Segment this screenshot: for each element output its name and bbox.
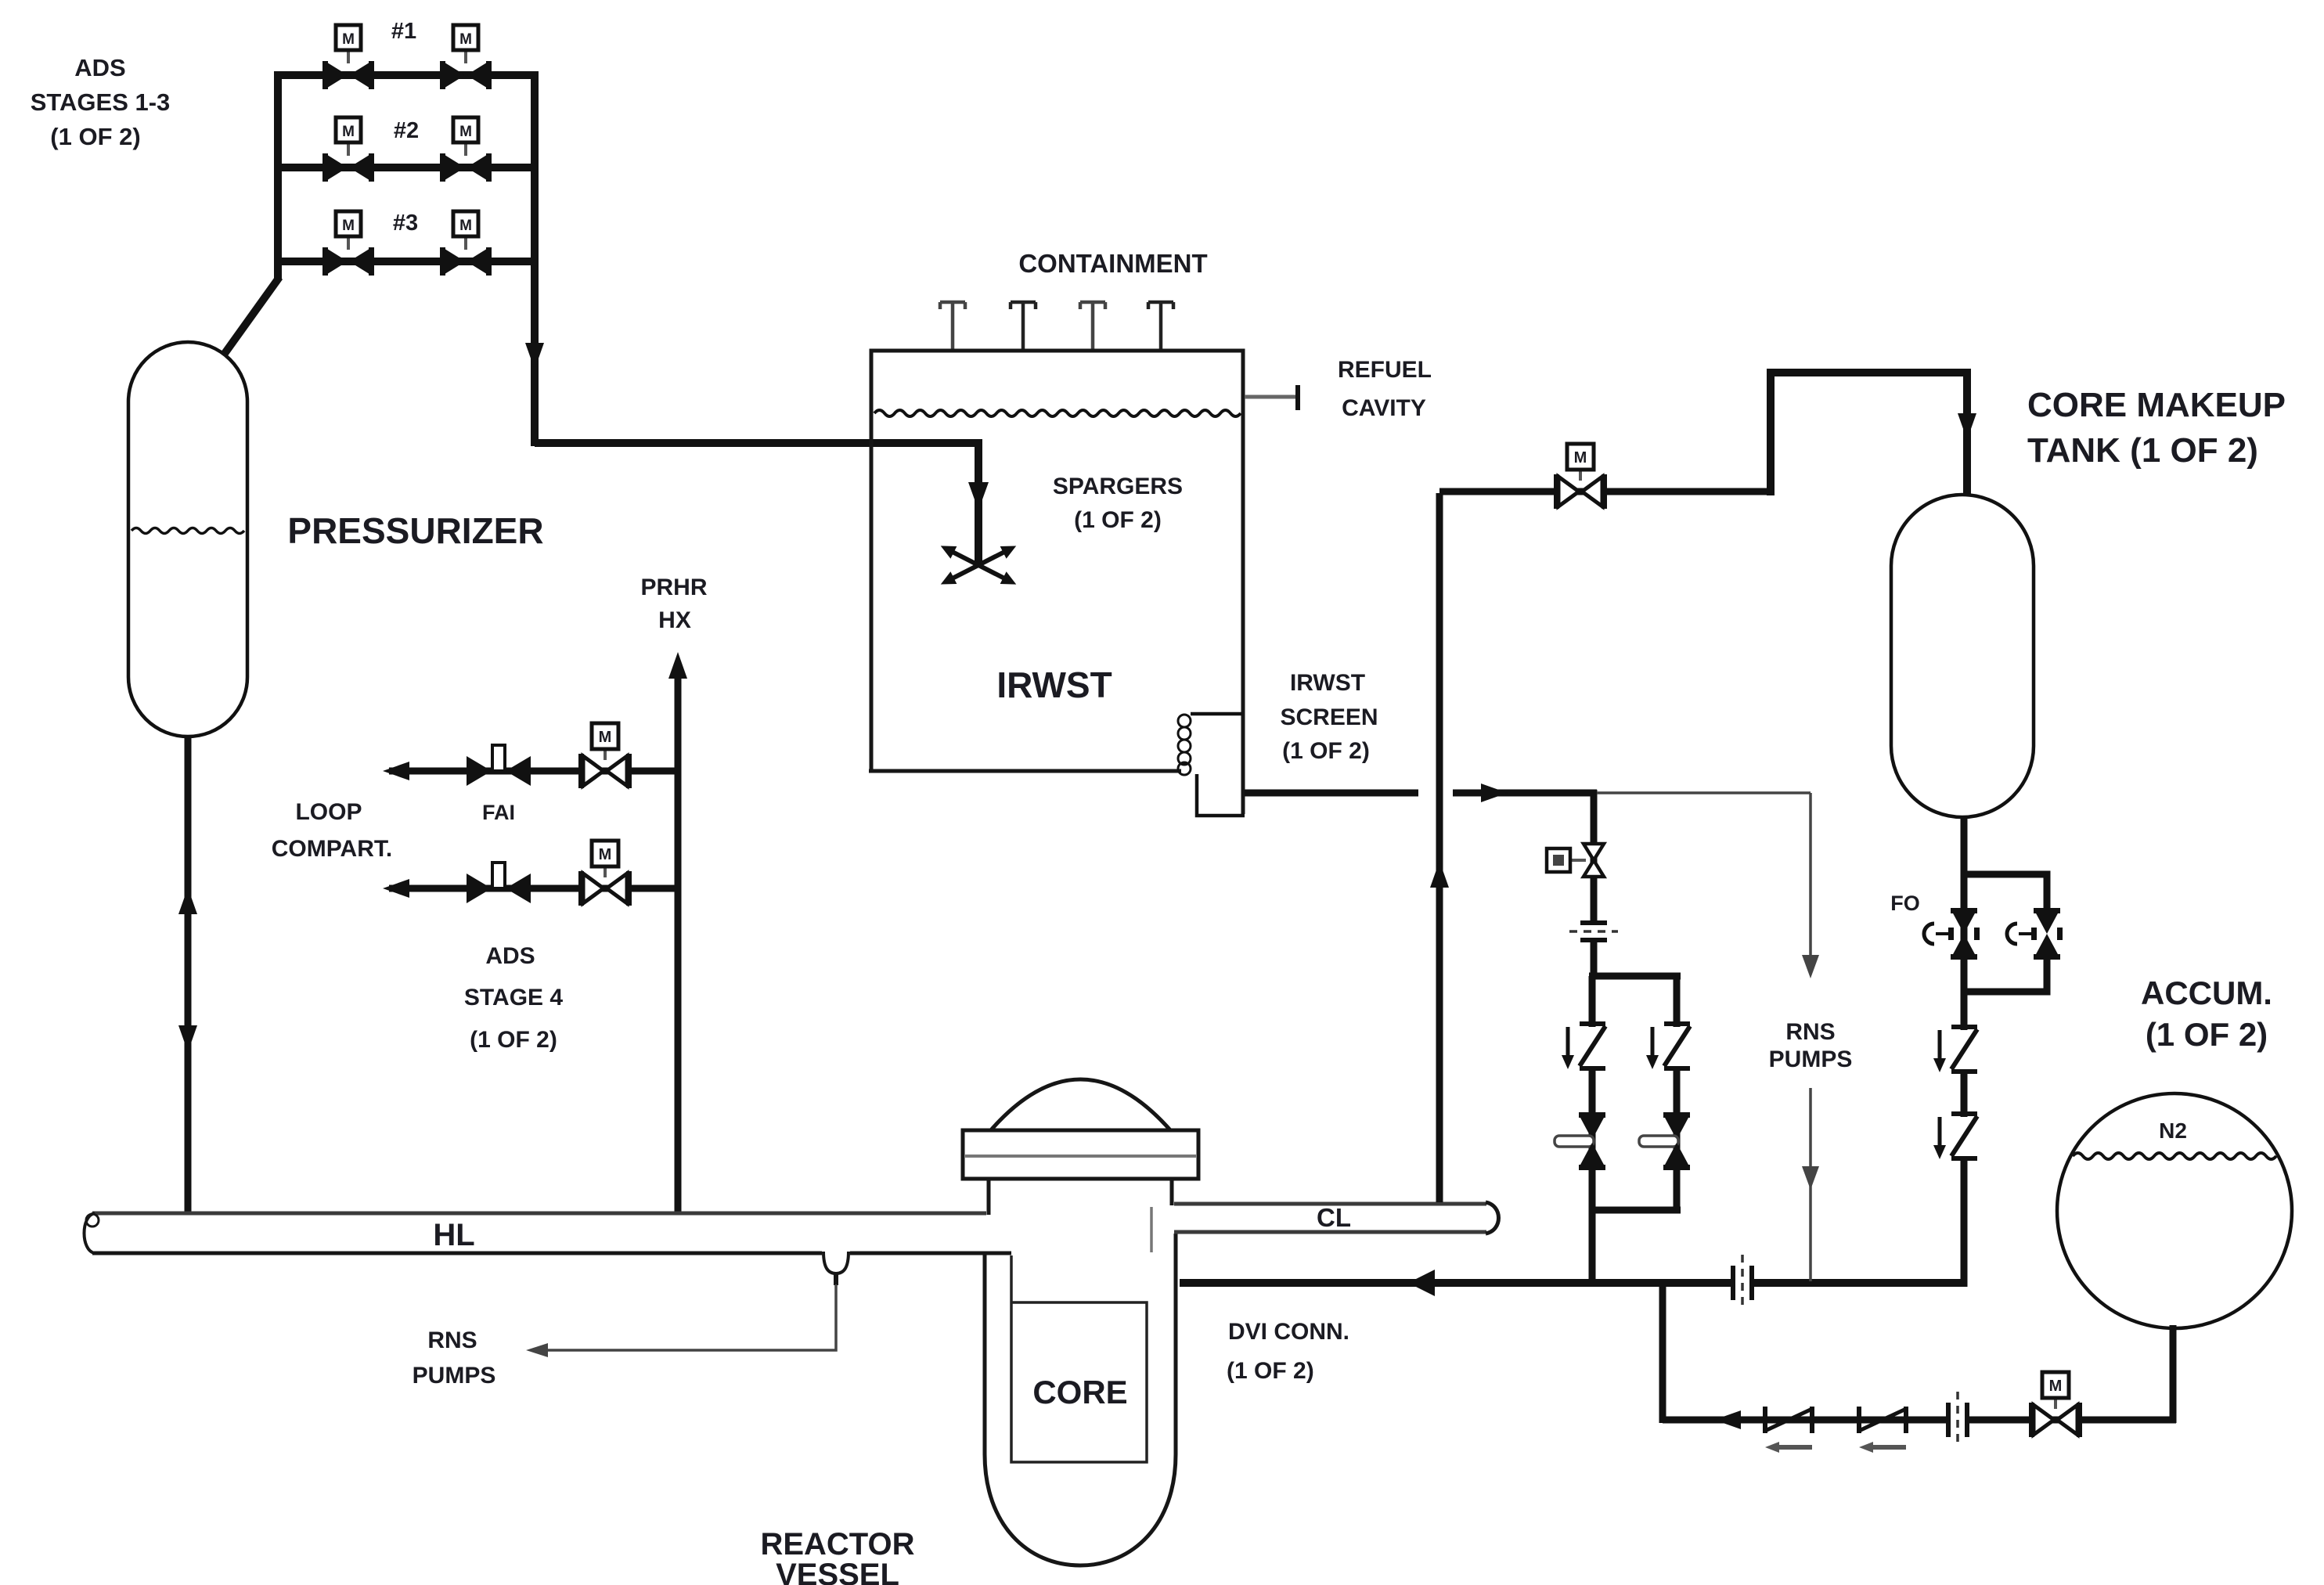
wire arrow down into CMT (1958, 413, 1976, 440)
wire arrow left ADS4 line (383, 879, 409, 898)
svg-text:PRHR: PRHR (640, 575, 707, 600)
wire parallel branch split (1589, 973, 1681, 980)
wire parallel branch rejoin (1589, 1207, 1681, 1214)
wire ADS header right vertical (531, 71, 539, 446)
svg-text:(1 OF 2): (1 OF 2) (50, 123, 140, 150)
squib valve CMT lower (1933, 1114, 1977, 1159)
wire arrow up to PRHR HX (668, 652, 687, 679)
flanged break accumulator line (1946, 1392, 1969, 1448)
wire ADS header left vertical (274, 72, 282, 280)
wire arrow up on balance line (1430, 861, 1449, 888)
svg-text:STAGE 4: STAGE 4 (464, 985, 563, 1010)
wire ADS stage 3 line (274, 258, 539, 265)
check valve right IRWST leg (1639, 1112, 1690, 1170)
svg-text:(1 OF 2): (1 OF 2) (470, 1027, 557, 1053)
svg-text:STAGES 1-3: STAGES 1-3 (31, 88, 171, 116)
wire arrow left on accumulator line (1714, 1410, 1741, 1429)
wire DVI injection line (1180, 1279, 1966, 1287)
label SPARGERS (1 OF 2) (1053, 474, 1183, 533)
svg-text:#2: #2 (394, 118, 419, 143)
squib valve left IRWST leg (1562, 1024, 1605, 1069)
label PRHR HX (640, 575, 707, 633)
flanged break on injection leg (1569, 920, 1618, 942)
hot leg pipe HL (85, 1213, 1012, 1253)
wire balance line upper run to CMT (1771, 373, 1967, 496)
svg-text:PRESSURIZER: PRESSURIZER (287, 510, 543, 551)
wire arrow up on surge line (178, 888, 197, 914)
wire FAI vent line (389, 768, 681, 775)
wire arrow left on DVI line (1408, 1270, 1435, 1296)
wire balance line horizontal run (1439, 488, 1775, 495)
wire arrow down sparger line (968, 482, 989, 510)
svg-text:IRWST: IRWST (996, 665, 1112, 705)
wire injection tail to DVI (1589, 1210, 1596, 1287)
containment vent 4 (1148, 302, 1173, 352)
svg-text:ACCUM.: ACCUM. (2141, 974, 2272, 1011)
IRWST tank bottom (869, 769, 1181, 773)
reactor vessel lower shell (985, 1234, 1176, 1565)
containment vent 2 (1011, 302, 1036, 352)
wire ADS stage 1 line (274, 71, 539, 79)
IRWST tank walls (871, 351, 1243, 814)
wire RNS pumps injection spur (1597, 793, 1811, 1281)
svg-text:ADS: ADS (74, 54, 125, 81)
valve FAI MOV (578, 723, 632, 788)
svg-text:TANK (1 OF 2): TANK (1 OF 2) (2027, 431, 2258, 470)
svg-text:ADS: ADS (485, 943, 535, 969)
svg-text:PUMPS: PUMPS (1769, 1046, 1853, 1072)
accumulator water level wavy line (2073, 1153, 2276, 1159)
reactor vessel dome (989, 1079, 1172, 1132)
IRWST screen box (1191, 714, 1245, 816)
wire arrow right on injection header (1481, 783, 1508, 802)
svg-text:COMPART.: COMPART. (272, 836, 392, 862)
pressurizer water level wavy line (132, 528, 244, 534)
squib valve FAI (467, 745, 531, 786)
label DVI CONN. (1 OF 2) (1227, 1319, 1349, 1384)
core makeup tank CMT (1891, 495, 2034, 817)
wire pressurizer surge line (185, 735, 192, 1213)
reactor internals downcomer line (1150, 1207, 1153, 1252)
check valve FO bypass (2007, 908, 2063, 960)
svg-text:RNS: RNS (1785, 1019, 1835, 1045)
wire surge connection diagonal to pressurizer (224, 277, 279, 355)
flanged break on DVI line (1731, 1255, 1754, 1311)
pressurizer vessel (128, 342, 247, 737)
label RNS PUMPS (suction) (413, 1327, 496, 1389)
check valve accumulator 1 (1763, 1407, 1814, 1453)
svg-text:FO: FO (1890, 892, 1920, 915)
svg-text:CONTAINMENT: CONTAINMENT (1018, 249, 1207, 278)
svg-text:IRWST: IRWST (1290, 670, 1365, 696)
label REFUEL CAVITY (1338, 357, 1432, 421)
label CORE MAKEUP TANK (1 OF 2) (2027, 386, 2286, 470)
svg-text:REFUEL: REFUEL (1338, 357, 1432, 383)
wire parallel branch left leg (1589, 976, 1596, 1213)
refuel cavity connection (1245, 385, 1298, 410)
wire accumulator discharge stub (2170, 1325, 2177, 1423)
check valve accumulator 2 (1857, 1407, 1908, 1453)
label REACTOR VESSEL (760, 1527, 914, 1585)
wire CMT balance line riser from CL (1436, 493, 1443, 1202)
containment vent 3 (1080, 302, 1105, 352)
svg-text:#3: #3 (393, 211, 418, 236)
wire accumulator riser to DVI (1659, 1281, 1666, 1423)
svg-text:RNS: RNS (427, 1327, 477, 1353)
svg-text:VESSEL: VESSEL (776, 1558, 899, 1585)
svg-text:HX: HX (658, 607, 691, 633)
svg-text:SPARGERS: SPARGERS (1053, 474, 1183, 499)
svg-text:CAVITY: CAVITY (1342, 395, 1426, 421)
valve ADS2 MOV-B (440, 117, 492, 182)
label IRWST SCREEN (1 OF 2) (1280, 670, 1378, 764)
cold leg pipe CL (1174, 1202, 1499, 1234)
svg-text:FAI: FAI (482, 801, 515, 824)
accumulator tank (2057, 1093, 2292, 1328)
wire ADS stage 2 line (274, 164, 539, 171)
core barrel (1011, 1255, 1147, 1462)
svg-text:(1 OF 2): (1 OF 2) (1282, 738, 1370, 764)
valve ADS3 MOV-A (322, 211, 374, 276)
svg-text:DVI CONN.: DVI CONN. (1228, 1319, 1349, 1345)
IRWST screen coil (1178, 715, 1191, 775)
check valve FO main (1924, 908, 1980, 960)
wire RNS pumps suction line (540, 1284, 836, 1350)
svg-text:(1 OF 2): (1 OF 2) (2146, 1016, 2268, 1053)
svg-text:REACTOR: REACTOR (760, 1527, 914, 1562)
wire FO bypass branch (1961, 874, 2047, 912)
svg-text:(1 OF 2): (1 OF 2) (1074, 507, 1162, 533)
label RNS PUMPS (injection) (1769, 1019, 1853, 1072)
wire IRWST screen outlet (1245, 790, 1418, 797)
svg-text:PUMPS: PUMPS (413, 1363, 496, 1389)
svg-text:HL: HL (433, 1218, 474, 1252)
svg-text:CORE MAKEUP: CORE MAKEUP (2027, 386, 2286, 424)
wire ADS stage 4 line (389, 885, 681, 892)
valve ADS3 MOV-B (440, 211, 492, 276)
wire accumulator injection line (1663, 1417, 2176, 1424)
wire arrow left FAI line (383, 762, 409, 780)
svg-text:CORE: CORE (1032, 1374, 1127, 1410)
RNS suction nozzle notch (822, 1248, 850, 1285)
svg-text:SCREEN: SCREEN (1280, 704, 1378, 730)
label ACCUM. (1 OF 2) (2141, 974, 2272, 1053)
sparger (1 of 2) (939, 541, 1018, 589)
valve accumulator MOV (2029, 1372, 2082, 1437)
svg-text:(1 OF 2): (1 OF 2) (1227, 1358, 1314, 1384)
squib valve CMT upper (1933, 1027, 1977, 1072)
label ADS STAGE 4 (1 OF 2) (464, 943, 563, 1053)
svg-text:LOOP: LOOP (295, 799, 362, 825)
wire PRHR / ADS4 header vertical (675, 667, 682, 1213)
IRWST water level wavy line (874, 410, 1241, 416)
wire arrow down on ADS discharge (525, 343, 544, 369)
check valve left IRWST leg (1555, 1112, 1605, 1170)
label ADS STAGES 1-3 (1 OF 2) (31, 54, 171, 150)
wire arrow down on surge line (178, 1025, 197, 1052)
squib valve ADS4 (467, 863, 531, 903)
containment vent 1 (940, 302, 965, 352)
svg-text:#1: #1 (391, 19, 416, 44)
valve ADS2 MOV-A (322, 117, 374, 182)
squib valve IRWST injection (1547, 844, 1604, 877)
wire parallel branch right leg (1674, 973, 1681, 1213)
squib valve right IRWST leg (1646, 1024, 1690, 1069)
svg-text:N2: N2 (2159, 1119, 2187, 1143)
reactor vessel flange (963, 1130, 1198, 1179)
label LOOP COMPART. (272, 799, 392, 862)
svg-text:CL: CL (1317, 1203, 1351, 1232)
wire IRWST injection header (1453, 790, 1597, 797)
valve balance line MOV (1554, 444, 1607, 509)
wire arrow down RNS spur lower (1802, 1166, 1819, 1190)
wire arrow left to RNS pumps (526, 1343, 548, 1357)
wire ADS discharge to sparger (535, 443, 978, 564)
reactor vessel neck walls (987, 1179, 991, 1215)
valve ADS4 MOV (578, 841, 632, 906)
wire arrow down RNS spur upper (1802, 955, 1819, 978)
wire IRWST injection down leg (1591, 790, 1598, 979)
valve ADS1 MOV-A (322, 25, 374, 89)
valve ADS1 MOV-B (440, 25, 492, 89)
wire CMT discharge line (1961, 816, 1968, 1287)
